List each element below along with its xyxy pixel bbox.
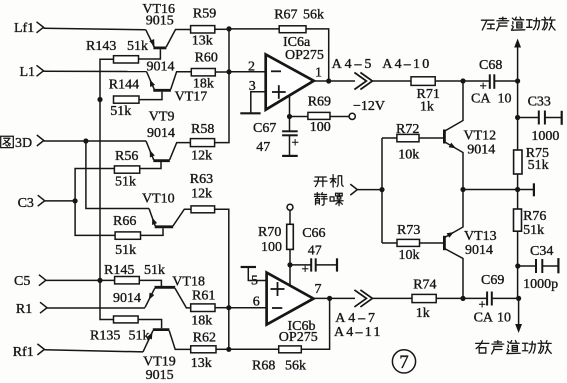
- wire pin 6 input: [229, 307, 267, 309]
- svg-text:R144: R144: [109, 78, 139, 93]
- net label 静噪: [314, 193, 327, 206]
- svg-text:R66: R66: [113, 214, 136, 229]
- resistor R143 body: [114, 56, 139, 63]
- junction C3 node: [73, 198, 78, 203]
- transistor VT18 base bar: [155, 286, 176, 289]
- svg-text:OP275: OP275: [279, 330, 318, 345]
- svg-text:Lf1: Lf1: [14, 21, 34, 36]
- wire to C34: [518, 265, 536, 267]
- node 图3D input terminal: [37, 135, 44, 146]
- resistor R135 body: [114, 316, 139, 323]
- svg-text:+: +: [479, 297, 486, 312]
- resistor R58 body: [190, 139, 214, 147]
- junction 图3D branch: [83, 138, 88, 143]
- wire C67 to ground: [289, 135, 291, 156]
- junction VT13 collector node: [460, 296, 465, 301]
- transistor VT17 base lead: [139, 92, 162, 100]
- svg-text:13k: 13k: [191, 356, 212, 371]
- junction C33 branch: [515, 115, 520, 120]
- transistor VT19 emitter arrow: [147, 331, 155, 340]
- svg-text:R1: R1: [16, 302, 32, 317]
- svg-text:OP275: OP275: [285, 48, 324, 63]
- net label 左声道功放: [481, 20, 494, 30]
- transistor VT16 base lead: [139, 49, 161, 59]
- svg-text:C33: C33: [528, 95, 551, 110]
- net label 右声道功放: [476, 341, 489, 353]
- junction right output node: [516, 296, 521, 301]
- resistor R144 body: [114, 96, 140, 103]
- resistor R70 body: [287, 224, 294, 249]
- svg-text:R62: R62: [193, 330, 216, 345]
- junction mute bus: [379, 187, 384, 192]
- wire 图3D branch to VT10 emitter: [86, 141, 149, 209]
- junction VT12 collector node: [460, 78, 465, 83]
- svg-text:R135: R135: [90, 328, 120, 343]
- wire R58 to summing bus: [215, 29, 229, 143]
- ground bar C67: [282, 155, 298, 157]
- svg-text:1k: 1k: [420, 100, 434, 115]
- capacitor C68 plates: [489, 74, 491, 89]
- op-amp IC6a plus: [272, 91, 286, 93]
- resistor R73 body: [397, 239, 420, 246]
- svg-text:51k: 51k: [115, 243, 136, 258]
- wire left channel arrow: [517, 44, 519, 81]
- svg-text:7: 7: [399, 352, 409, 373]
- svg-text:C5: C5: [14, 274, 30, 289]
- svg-text:1000p: 1000p: [523, 277, 558, 292]
- terminal bar C33: [561, 111, 563, 125]
- transistor VT9 base bar: [153, 159, 170, 162]
- transistor VT13 base bar: [443, 236, 446, 250]
- wire to R71: [372, 80, 411, 82]
- svg-text:R59: R59: [193, 7, 216, 22]
- svg-text:R63: R63: [190, 172, 213, 187]
- junction C5 bias bus: [97, 278, 102, 283]
- svg-text:9014: 9014: [465, 243, 493, 258]
- svg-text:−12V: −12V: [353, 99, 385, 114]
- svg-text:1k: 1k: [416, 306, 430, 321]
- wire R62 to bus: [216, 348, 229, 350]
- svg-text:VT18: VT18: [172, 274, 205, 289]
- resistor R72 body: [397, 134, 419, 141]
- resistor R74 body: [412, 294, 436, 302]
- resistor R60 body: [191, 69, 215, 76]
- transistor VT10 emitter: [149, 209, 155, 226]
- wire Lf1 to VT16 emitter: [44, 28, 146, 30]
- svg-text:Rf1: Rf1: [13, 345, 34, 360]
- node R1 input terminal: [40, 302, 47, 313]
- svg-text:10k: 10k: [398, 148, 419, 163]
- resistor R63 body: [191, 206, 215, 213]
- node 图3D input label: [1, 136, 14, 147]
- figure number 7: [392, 350, 415, 373]
- op-amp IC6b plus: [271, 288, 285, 290]
- svg-text:C34: C34: [530, 244, 553, 259]
- svg-text:C68: C68: [479, 58, 502, 73]
- terminal bar C34: [557, 258, 559, 273]
- transistor VT9 emitter: [146, 141, 154, 160]
- node C3 input terminal: [38, 195, 45, 206]
- svg-text:18k: 18k: [193, 76, 214, 91]
- svg-text:51k: 51k: [115, 174, 136, 189]
- svg-text:R74: R74: [413, 278, 436, 293]
- transistor VT12 emitter arrow: [449, 143, 458, 151]
- wire terminal to R70: [289, 210, 291, 224]
- wire mute bus: [381, 138, 383, 243]
- transistor VT16 collector: [166, 30, 190, 48]
- transistor VT12 emitter: [445, 142, 463, 190]
- transistor VT9 emitter arrow: [147, 149, 155, 157]
- junction summing node A2: [226, 69, 231, 74]
- svg-text:R60: R60: [195, 51, 218, 66]
- node mute input terminal: [350, 184, 357, 195]
- svg-text:CA: CA: [471, 92, 491, 107]
- svg-text:+: +: [302, 261, 309, 276]
- transistor VT16 base bar: [153, 47, 166, 50]
- wire bus to R68: [229, 348, 279, 350]
- svg-text:VT17: VT17: [175, 90, 208, 105]
- svg-text:A4–11: A4–11: [334, 325, 383, 340]
- net label 开机: [314, 177, 327, 187]
- resistor R62 body: [191, 346, 216, 353]
- svg-text:A4–10: A4–10: [382, 57, 431, 72]
- wire C68 to output node: [494, 80, 517, 82]
- svg-text:R70: R70: [258, 225, 281, 240]
- svg-text:C3: C3: [18, 196, 34, 211]
- wire R60 to summing node: [215, 71, 229, 73]
- wire R1 to VT18 emitter: [47, 307, 145, 309]
- svg-text:9014: 9014: [147, 126, 175, 141]
- wire C3 bus to R56 and R66: [75, 169, 115, 236]
- svg-text:51k: 51k: [523, 223, 544, 238]
- resistor R71 body: [411, 77, 435, 86]
- svg-text:18k: 18k: [191, 313, 212, 328]
- wire C5 to R145: [46, 279, 115, 281]
- transistor VT9 base lead: [140, 162, 161, 169]
- transistor VT10 collector: [173, 209, 191, 226]
- transistor VT18 emitter arrow: [146, 293, 154, 302]
- wire C34 to terminal: [542, 265, 558, 267]
- svg-text:9014: 9014: [147, 60, 175, 75]
- svg-text:9015: 9015: [146, 368, 174, 383]
- wire right channel arrow: [518, 298, 520, 327]
- wire down to C33 branch: [517, 81, 519, 150]
- resistor R145 body: [115, 277, 140, 284]
- wire C33 to terminal: [545, 117, 562, 119]
- svg-text:R67: R67: [274, 7, 297, 22]
- capacitor C66 plates: [310, 258, 312, 271]
- wire IC6a output: [314, 80, 355, 82]
- node -12V terminal: [349, 113, 355, 119]
- transistor VT9 collector: [170, 143, 191, 160]
- ground at pin 5: [248, 267, 266, 281]
- svg-text:12k: 12k: [191, 187, 212, 202]
- wire C3 input: [45, 200, 75, 202]
- resistor R69 body: [308, 112, 330, 119]
- svg-text:51k: 51k: [129, 328, 150, 343]
- resistor R56 body: [114, 166, 139, 173]
- capacitor C67 plates: [282, 130, 298, 132]
- wire C66 to ground: [316, 264, 337, 266]
- svg-text:47: 47: [308, 244, 322, 259]
- capacitor C33 plates: [538, 111, 540, 125]
- transistor VT12 base bar: [443, 130, 446, 144]
- transistor VT16 emitter: [146, 30, 154, 47]
- transistor VT18 collector: [175, 288, 191, 308]
- wire IC6a to C67 node: [289, 95, 291, 131]
- resistor R76 body: [514, 209, 522, 231]
- wire emitter rail: [463, 189, 518, 191]
- transistor VT10 base bar: [155, 225, 174, 228]
- transistor VT13 emitter arrow: [447, 230, 456, 238]
- svg-text:6: 6: [253, 294, 260, 309]
- node C5 input terminal: [39, 275, 46, 286]
- svg-text:9014: 9014: [113, 291, 141, 306]
- junction left output node: [515, 78, 520, 83]
- resistor R61 body: [191, 304, 215, 312]
- wire IC6b output: [314, 297, 356, 299]
- wire R76 to C34 node: [517, 231, 519, 298]
- wire bias bus vertical: [100, 59, 114, 319]
- node L1 input terminal: [37, 65, 44, 76]
- svg-text:R68: R68: [252, 358, 275, 373]
- transistor VT13 emitter: [445, 190, 463, 238]
- junction bias bus R144: [97, 97, 102, 102]
- svg-text:R69: R69: [308, 95, 331, 110]
- transistor VT19 base bar: [153, 328, 170, 331]
- wire Rf1 to VT19 emitter: [44, 350, 143, 352]
- transistor VT17 emitter: [147, 72, 155, 90]
- transistor VT13 collector: [445, 249, 463, 299]
- svg-text:3D: 3D: [15, 136, 32, 151]
- capacitor C69 plates: [486, 292, 488, 306]
- resistor R66 body: [115, 232, 140, 239]
- svg-text:1000: 1000: [531, 129, 559, 144]
- resistor R75 body: [514, 150, 522, 174]
- svg-text:47: 47: [256, 140, 270, 155]
- junction output-feedback: [326, 78, 331, 83]
- svg-text:+: +: [292, 135, 299, 150]
- wire rail down to R76: [517, 190, 519, 210]
- node R70 terminal: [287, 204, 293, 210]
- svg-text:10: 10: [498, 92, 512, 107]
- node Rf1 input terminal: [37, 344, 44, 355]
- svg-text:2: 2: [248, 60, 255, 75]
- svg-text:5: 5: [251, 274, 258, 289]
- svg-text:R143: R143: [86, 39, 116, 54]
- right channel arrowhead: [515, 324, 522, 333]
- transistor VT17 base bar: [153, 89, 171, 92]
- svg-text:C67: C67: [253, 121, 276, 136]
- connector A4-5 chevrons: [354, 73, 366, 90]
- svg-text:51k: 51k: [528, 158, 549, 173]
- svg-text:C69: C69: [481, 273, 504, 288]
- resistor R67 body: [279, 26, 306, 33]
- wire R63 to IC6b summing bus: [215, 209, 229, 349]
- svg-text:R72: R72: [396, 122, 419, 137]
- transistor VT12 collector: [445, 81, 463, 131]
- wire R74 to C69: [436, 297, 487, 299]
- ground bar rail: [533, 183, 535, 196]
- wire R135 to VT19 base: [138, 320, 162, 329]
- junction output-feedback b: [327, 296, 332, 301]
- svg-text:R73: R73: [397, 223, 420, 238]
- connector A4-7 chevrons: [354, 290, 366, 307]
- svg-text:VT9: VT9: [149, 110, 175, 125]
- wire to C66: [290, 264, 311, 266]
- wire R75 to rail: [517, 174, 519, 190]
- svg-text:R56: R56: [115, 149, 138, 164]
- wire R145 to VT18 base: [139, 280, 161, 286]
- svg-text:C66: C66: [302, 226, 325, 241]
- svg-text:CA: CA: [474, 310, 494, 325]
- wire C69 to output node: [492, 297, 519, 299]
- svg-text:VT10: VT10: [142, 192, 175, 207]
- wire to R74: [372, 297, 412, 299]
- resistor R59 body: [191, 26, 215, 33]
- wire mute input: [357, 189, 382, 191]
- wire pin 2 input: [229, 71, 266, 73]
- ground bar C66: [336, 258, 338, 271]
- wire mute to R72: [382, 137, 397, 139]
- wire R68 to IC6b output: [301, 298, 329, 349]
- transistor VT10 emitter arrow: [150, 217, 157, 225]
- resistor R68 body: [279, 346, 302, 353]
- capacitor C34 plates: [535, 259, 537, 273]
- svg-text:7: 7: [315, 282, 322, 297]
- wire R71 to C68: [435, 80, 489, 82]
- node Lf1 input terminal: [37, 22, 44, 33]
- svg-text:13k: 13k: [192, 34, 213, 49]
- ground at pin 3: [251, 92, 266, 114]
- junction summing node A: [226, 26, 231, 31]
- svg-text:100: 100: [310, 120, 331, 135]
- wire R70 to IC6b: [289, 249, 291, 285]
- junction feedback node B: [226, 347, 231, 352]
- wire R73 to VT13 base: [420, 242, 444, 244]
- svg-text:A4–7: A4–7: [335, 311, 378, 326]
- wire to C33: [518, 117, 539, 119]
- transistor VT16 emitter arrow: [149, 39, 157, 48]
- junction C66 node: [287, 262, 292, 267]
- transistor VT10 base lead: [141, 228, 164, 235]
- svg-text:R58: R58: [191, 122, 214, 137]
- wire rail to ground: [518, 189, 534, 191]
- wire R61 to IC6b summing bus: [215, 307, 229, 309]
- svg-text:9014: 9014: [467, 142, 495, 157]
- svg-text:1: 1: [315, 66, 322, 81]
- svg-text:56k: 56k: [285, 358, 306, 373]
- wire L1 to VT17 emitter: [44, 70, 147, 72]
- left channel arrowhead: [514, 39, 521, 48]
- svg-text:10: 10: [497, 310, 511, 325]
- junction rail left: [460, 187, 465, 192]
- wire R59 to summing node: [215, 28, 229, 30]
- wire summing node to R67: [229, 28, 279, 30]
- junction rail right: [515, 187, 520, 192]
- op-amp U IC6a triangle: [266, 54, 314, 109]
- svg-text:9015: 9015: [146, 14, 174, 29]
- wire R69 to terminal: [330, 116, 349, 118]
- svg-text:VT13: VT13: [464, 229, 497, 244]
- svg-text:51k: 51k: [110, 104, 131, 119]
- svg-text:51k: 51k: [144, 263, 165, 278]
- op-amp U IC6b triangle: [267, 273, 314, 325]
- wire node to R69: [290, 116, 308, 118]
- transistor VT18 emitter: [145, 288, 155, 307]
- svg-text:A4–5: A4–5: [332, 57, 375, 72]
- wire R67 to IC6a output: [306, 29, 329, 81]
- svg-text:VT12: VT12: [464, 129, 497, 144]
- transistor VT19 collector: [169, 331, 191, 350]
- op-amp IC6b minus: [272, 307, 282, 309]
- wire 图3D to VT9 emitter: [44, 140, 146, 142]
- op-amp IC6a minus: [271, 70, 281, 72]
- svg-text:R61: R61: [192, 288, 215, 303]
- svg-text:R145: R145: [104, 263, 134, 278]
- transistor VT19 emitter: [143, 331, 153, 352]
- svg-text:R76: R76: [523, 209, 546, 224]
- svg-text:51k: 51k: [127, 39, 148, 54]
- svg-text:56k: 56k: [303, 7, 324, 22]
- svg-text:10k: 10k: [399, 248, 420, 263]
- transistor VT17 collector: [171, 72, 192, 90]
- svg-text:12k: 12k: [191, 149, 212, 164]
- wire R72 to VT12 base: [419, 137, 444, 139]
- junction R69 node: [287, 114, 292, 119]
- transistor VT17 emitter arrow: [147, 78, 155, 87]
- junction C34 branch: [515, 263, 520, 268]
- wire mute to R73: [382, 242, 397, 244]
- svg-text:100: 100: [261, 240, 282, 255]
- junction summing node B: [226, 305, 231, 310]
- svg-text:L1: L1: [20, 65, 36, 80]
